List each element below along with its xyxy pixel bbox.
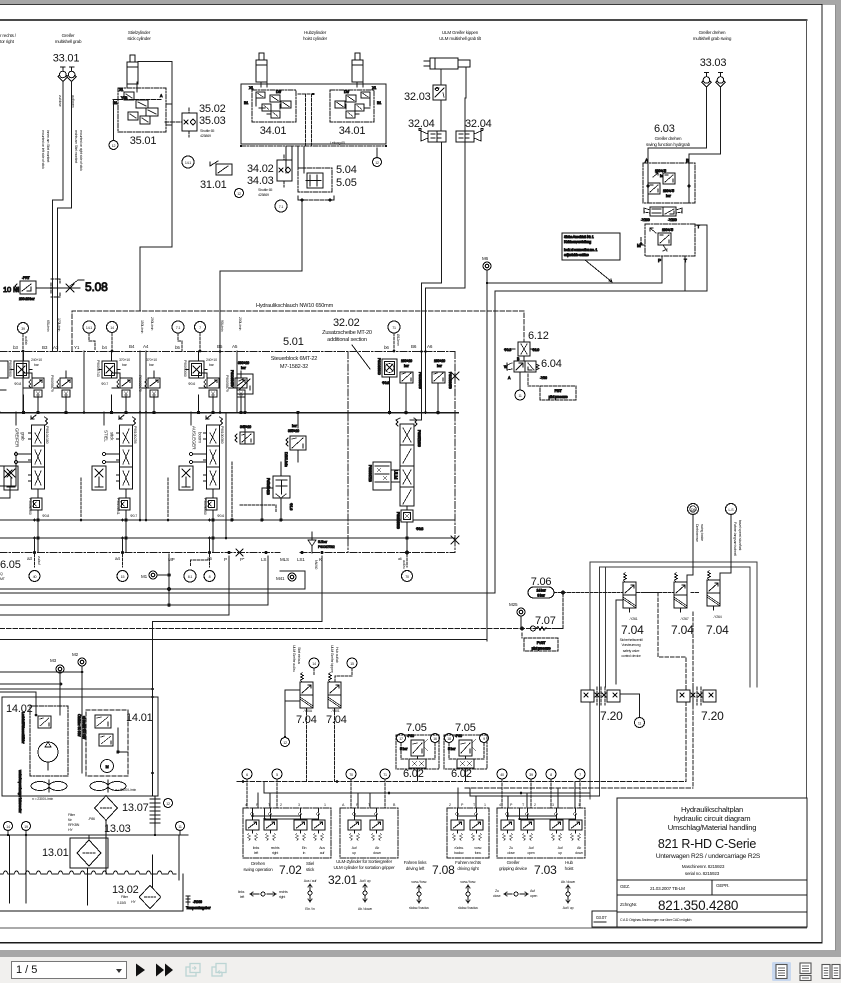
svg-text:B: B [686,158,689,163]
svg-text:Φ0.8: Φ0.8 [382,381,389,385]
wire dashed feed [523,344,525,346]
svg-text:7.05: 7.05 [455,722,476,734]
svg-text:P90083413: P90083413 [266,478,270,495]
svg-text:Unterwagen R2S / undercarriage: Unterwagen R2S / undercarriage R2S [656,853,761,860]
left edge partial compensator [0,466,16,498]
svg-text:Zu: Zu [509,846,513,850]
svg-text:-P90: -P90 [455,734,462,738]
svg-text:open: open [530,894,537,898]
svg-text:water/supercharger intercooler: water/supercharger intercooler [18,770,22,814]
joystick legends [238,879,575,911]
svg-text:left: left [240,895,244,899]
svg-text:160+10: 160+10 [401,359,412,363]
ULM solenoid block [373,462,391,490]
svg-text:bar: bar [149,363,155,367]
svg-text:boom: boom [198,432,203,443]
svg-text:bar: bar [34,363,40,367]
svg-text:11: 11 [638,722,642,726]
svg-text:B6: B6 [411,344,417,349]
node circle L-S [726,504,737,515]
shuttle 33.03 left [702,73,712,88]
valve block 5.04 / 5.05 [286,146,334,201]
svg-text:ULM cylinder for sortation gri: ULM cylinder for sortation gripper [333,865,395,870]
svg-text:-Y30A: -Y30A [303,709,313,713]
svg-text:hoist: hoist [565,866,575,871]
svg-text:ULM multishell grab tilt: ULM multishell grab tilt [439,36,482,41]
svg-text:Φ0.8: Φ0.8 [42,514,49,518]
svg-text:right: right [279,895,285,899]
svg-text:rückw.: rückw. [455,846,464,850]
svg-text:P90086900: P90086900 [396,512,400,529]
svg-text:7: 7 [199,326,201,330]
svg-text:swing operation: swing operation [243,867,273,872]
dashed drain route [636,593,693,789]
svg-text:Filter: Filter [68,813,76,817]
valve 7.04 m2 [328,673,341,713]
svg-text:auf/ab: auf/ab [24,336,28,345]
svg-text:P90093713: P90093713 [368,465,372,482]
svg-text:32.04: 32.04 [408,118,435,130]
svg-text:vorw./ forw.: vorw./ forw. [460,880,476,884]
svg-text:P: P [461,803,464,807]
svg-text:39: 39 [529,773,533,777]
wire D8 to valve [687,514,693,582]
svg-text:GREIFER: GREIFER [15,428,20,448]
cooler fins [150,773,160,828]
svg-text:P90093679: P90093679 [50,375,54,392]
svg-text:X1: X1 [119,88,123,92]
svg-text:39: 39 [21,327,25,331]
valve 7.04 #2 [674,573,687,613]
node circle 12 hoist [235,189,244,198]
svg-text:180+/-5: 180+/-5 [663,189,674,193]
svg-text:C A D Originas Änderungen nu: C A D Originas Änderungen nur über CAD m… [620,918,692,922]
svg-text:Hubzylinder: Hubzylinder [304,30,327,35]
svg-text:180+/-5: 180+/-5 [662,228,673,232]
svg-text:P90090060: P90090060 [183,360,187,377]
svg-text:in: in [303,851,306,855]
svg-text:390+10: 390+10 [238,361,249,365]
svg-text:r rechts /: r rechts / [0,33,17,38]
relief cluster ULM [377,358,452,389]
wire hoist cyl left [261,64,267,87]
svg-text:13.03: 13.03 [104,823,131,835]
svg-text:-P90: -P90 [407,734,414,738]
svg-text:für: für [68,818,73,822]
svg-text:travel speed slow/fast: travel speed slow/fast [738,520,742,550]
svg-text:Maschinennr. 8215923: Maschinennr. 8215923 [682,864,725,869]
svg-text:40: 40 [500,773,504,777]
svg-text:T: T [268,803,271,807]
svg-text:Y1: Y1 [74,345,80,350]
svg-text:auf/zu: auf/zu [402,560,406,569]
svg-text:b3: b3 [13,345,18,350]
svg-text:P90093679: P90093679 [448,372,452,389]
shuttle block 34.02 / 34.03 [277,155,292,187]
svg-text:a = 2800 L/min: a = 2800 L/min [115,788,136,792]
valve group 32.01 [328,803,398,887]
svg-text:D8: D8 [691,508,695,512]
next page button [134,962,150,978]
svg-text:RFKBN: RFKBN [68,823,80,827]
svg-text:swing brake: swing brake [700,524,704,541]
ULM spool [368,377,439,554]
svg-text:up: up [558,851,562,855]
cylinder stick [127,55,138,84]
svg-text:hoist cylinder: hoist cylinder [303,36,328,41]
node circle 11d [176,822,185,831]
svg-text:180+/-5: 180+/-5 [655,169,666,173]
spool s3 [179,415,223,552]
svg-text:40: 40 [33,575,37,579]
svg-text:9: 9 [483,737,485,741]
note box cabine [562,233,620,282]
valve group 7.03 [497,803,585,877]
svg-text:links: links [253,846,260,850]
svg-text:Ladeluft/Wasserkühler: Ladeluft/Wasserkühler [21,712,25,744]
svg-text:34.02: 34.02 [247,163,274,175]
svg-text:PiST: PiST [555,389,563,393]
node circle 12d [164,799,173,808]
svg-text:Leitung 65: Leitung 65 [330,141,345,145]
svg-text:821.350.4280: 821.350.4280 [658,898,738,913]
svg-text:8.1: 8.1 [188,575,193,579]
svg-text:zu/auf: zu/auf [37,556,41,565]
wire stick piston side [138,62,172,312]
svg-text:Fahren links: Fahren links [404,860,428,865]
pilot dashes to 5.04 [298,94,315,146]
svg-text:X1: X1 [249,86,253,90]
svg-text:7.1: 7.1 [176,326,181,330]
svg-text:1: 1 [324,803,326,807]
svg-text:rechts am Stiel montiert: rechts am Stiel montiert [74,130,78,163]
svg-text:control device: control device [621,654,641,658]
svg-text:hydraulic circuit diagram: hydraulic circuit diagram [674,814,751,823]
svg-text:Φ0.6: Φ0.6 [188,382,195,386]
svg-text:1: 1 [578,803,580,807]
svg-text:12: 12 [375,161,379,165]
svg-text:adjustable cabine: adjustable cabine [564,253,589,257]
cylinder hoist left [256,53,267,82]
svg-text:1: 1 [484,803,486,807]
svg-text:14: 14 [6,825,10,829]
node circle 11 [515,390,525,400]
drawing frame right [806,20,808,928]
svg-text:A: A [508,376,511,380]
svg-text:6: 6 [246,773,248,777]
svg-text:32.03: 32.03 [404,91,431,103]
valve group 7.02 [243,803,331,877]
wire grab open [58,82,72,352]
cylinder hoist right [352,53,363,82]
node circle 14c [309,658,319,668]
bypass 5.5bar [308,532,335,553]
svg-text:33.01: 33.01 [53,53,80,65]
svg-text:Greifer drehen: Greifer drehen [699,30,726,35]
svg-text:rechts: rechts [271,846,280,850]
svg-text:MLS: MLS [280,557,289,562]
svg-text:P90104/180: P90104/180 [45,426,49,444]
svg-text:7.20: 7.20 [600,709,623,723]
svg-text:425869: 425869 [200,134,211,138]
svg-text:ULM Greifer kippen: ULM Greifer kippen [330,645,334,673]
cooler unit box [2,697,158,796]
node circle 15b [347,658,357,668]
pilot below [401,510,413,522]
svg-text:Stielzylinder: Stielzylinder [128,30,151,35]
svg-text:oil cooler 50 KW: oil cooler 50 KW [82,716,86,740]
svg-text:close: close [507,851,515,855]
svg-text:ZchngNr.: ZchngNr. [620,902,637,907]
svg-text:a4: a4 [115,556,120,561]
wire 6.03 P [661,256,663,283]
svg-text:Zusatzscheibe MT-20: Zusatzscheibe MT-20 [322,330,372,336]
svg-text:NW40: NW40 [314,560,318,569]
svg-text:bar: bar [209,363,215,367]
svg-text:B1: B1 [244,101,248,105]
svg-text:Aus / auf: Aus / auf [304,879,317,883]
svg-text:Zu: Zu [495,889,499,893]
svg-text:70: 70 [405,575,409,579]
svg-text:7.04: 7.04 [621,623,644,637]
svg-text:T: T [522,803,525,807]
svg-text:HY: HY [68,828,73,832]
svg-text:Ein: Ein [302,846,307,850]
svg-text:Drehbremse: Drehbremse [695,524,699,542]
svg-text:A: A [342,803,345,807]
svg-text:driving left: driving left [406,866,425,871]
svg-text:Greifer drehen: Greifer drehen [655,136,682,141]
disabled icon 1 [184,961,204,979]
svg-text:160+10: 160+10 [434,359,445,363]
svg-text:365+10: 365+10 [288,429,299,433]
svg-text:345+10: 345+10 [240,425,251,429]
svg-text:Greifer: Greifer [62,33,75,38]
svg-text:A3: A3 [53,345,59,350]
junction dots [168,588,171,591]
node circle 7.1 [275,200,287,212]
svg-text:19: 19 [24,825,28,829]
compensator [273,476,290,498]
svg-text:5: 5 [276,773,278,777]
intercooler subunit [18,706,68,814]
svg-text:vorw./ forw.: vorw./ forw. [411,880,427,884]
svg-text:close: close [493,894,501,898]
svg-text:stick cylinder: stick cylinder [127,36,151,41]
svg-text:33.03: 33.03 [700,57,727,69]
wires 7.04 pair [314,668,352,682]
svg-text:L-S: L-S [729,508,735,512]
svg-text:14.02: 14.02 [6,703,33,715]
wire pilot dashed long [0,628,563,630]
accumulator 7.06 [528,587,554,598]
svg-text:left: left [254,851,258,855]
svg-text:8 bar: 8 bar [537,594,545,598]
node circle 14.1 [182,156,194,168]
svg-text:auf/open: auf/open [71,95,75,108]
manifold 7.20 right [677,687,716,705]
wire M6 rail [487,270,662,283]
svg-text:multishell grab: multishell grab [55,39,82,44]
svg-text:2: 2 [534,803,536,807]
enclosure wires [590,562,757,799]
svg-text:-PRT: -PRT [22,276,31,280]
svg-text:up: up [352,851,356,855]
relief cluster s1 [11,351,72,414]
svg-text:bar: bar [666,194,672,198]
wire 6.03 T [495,225,707,291]
svg-text:ULM Greifer kippen: ULM Greifer kippen [442,30,479,35]
svg-text:Hydraulikschlauch NW10 650mm: Hydraulikschlauch NW10 650mm [256,303,334,309]
svg-text:P90090060: P90090060 [203,498,207,515]
svg-text:P90072096: P90072096 [417,430,421,447]
svg-text:B4: B4 [129,344,135,349]
svg-text:multishell grab swing: multishell grab swing [693,36,732,41]
node circle 11b [620,694,640,717]
svg-text:-R066: -R066 [193,900,202,904]
shuttle valve 33.01 right [67,67,77,82]
svg-text:11: 11 [518,394,522,398]
svg-text:Filter: Filter [121,895,129,899]
svg-text:Vorsteuerung: Vorsteuerung [622,643,641,647]
svg-text:-Y96: -Y96 [540,376,547,380]
connector circles row [242,769,252,779]
svg-text:down: down [373,851,381,855]
svg-text:innen am Stiel montiert: innen am Stiel montiert [46,130,50,162]
svg-text:P: P [658,258,661,263]
svg-text:Drehen: Drehen [251,861,266,866]
svg-text:7.1: 7.1 [279,205,284,209]
lower section 6.03 [645,224,695,256]
svg-text:HY: HY [131,900,136,904]
svg-text:A5: A5 [232,344,238,349]
page top border [0,4,822,6]
svg-text:P90093679: P90093679 [225,375,229,392]
svg-text:stick: stick [306,867,315,872]
svg-text:M2: M2 [72,652,79,657]
svg-text:16: 16 [433,737,437,741]
svg-text:200-20 bar: 200-20 bar [19,297,35,301]
svg-text:Siehe Anschluß Nr. 1: Siehe Anschluß Nr. 1 [564,235,594,239]
svg-text:240+10: 240+10 [31,358,42,362]
svg-text:Ab: Ab [577,846,581,850]
disabled icon 2 [210,961,230,979]
svg-text:13.07: 13.07 [122,802,149,814]
svg-text:ULM-Zylinder für Sortiergreife: ULM-Zylinder für Sortiergreifer [336,859,393,864]
node circle 8 [204,571,215,582]
wire swing A [648,87,707,163]
svg-text:D/20L/min: D/20L/min [284,452,288,467]
svg-text:Dw: Dw [276,90,281,94]
svg-text:3: 3 [552,803,554,807]
svg-text:Hydraulikschaltplan: Hydraulikschaltplan [681,805,743,814]
node circle 39 [18,323,29,334]
page bottom printed border [0,942,822,944]
pressure switch 5.08 [3,276,108,301]
wire return tank M6 [0,639,487,641]
dashed pilot line across [563,592,700,594]
svg-text:Φ0.7: Φ0.7 [130,514,137,518]
svg-text:14.01: 14.01 [126,712,153,724]
svg-text:13.01: 13.01 [42,847,69,859]
svg-text:P90100/256: P90100/256 [133,426,137,444]
svg-text:Fahren langsam/schnell: Fahren langsam/schnell [733,522,737,556]
svg-text:Stiel: Stiel [306,861,314,866]
svg-text:32.01: 32.01 [328,873,358,887]
svg-text:serial no. 8215923: serial no. 8215923 [685,871,720,876]
wire grab close [53,82,63,352]
svg-text:-Y200: -Y200 [641,218,650,222]
svg-text:P90086900: P90086900 [28,498,32,515]
svg-text:zu/close: zu/close [58,95,62,107]
svg-text:12: 12 [237,192,241,196]
svg-text:Dw: Dw [344,90,349,94]
hoist valves outer box [241,84,386,144]
wire return cooler K [153,556,323,692]
svg-text:7: 7 [579,773,581,777]
svg-text:5.08: 5.08 [85,280,108,294]
svg-text:Ø12mm: Ø12mm [396,334,400,346]
svg-text:B3: B3 [42,345,48,350]
drawing frame bottom [0,927,807,929]
pilot pair [240,432,254,444]
svg-text:bar: bar [292,424,298,428]
svg-text:Φ0.8: Φ0.8 [14,382,21,386]
svg-text:P90086900: P90086900 [377,358,381,375]
valve 7.04 m1 [300,673,313,713]
continuous view icon [797,962,815,981]
svg-text:safety valve: safety valve [623,649,640,653]
svg-text:mounted on right side of stick: mounted on right side of stick [79,130,83,171]
svg-text:5.01: 5.01 [283,336,304,348]
svg-text:425869: 425869 [258,193,269,197]
svg-text:Auf: Auf [529,846,534,850]
svg-text:2: 2 [449,803,451,807]
svg-text:b4: b4 [102,345,107,350]
svg-text:P: P [510,803,513,807]
revision box 03.07 [592,911,617,927]
wire M stubs [0,666,153,715]
svg-text:12: 12 [283,741,287,745]
svg-text:6.12: 6.12 [528,330,549,342]
svg-text:Φ1.6: Φ1.6 [289,503,293,510]
valve 7.04 #1 [623,573,636,613]
svg-text:pilot pressure: pilot pressure [549,395,568,399]
svg-text:5.5bar: 5.5bar [318,540,328,544]
svg-text:Auf: Auf [530,889,535,893]
wires ULM ports [420,350,423,353]
svg-text:rechts: rechts [279,890,288,894]
wire valve1 drain [616,600,623,684]
node circle 8.1 [184,570,196,582]
svg-text:vorw.: vorw. [474,846,482,850]
svg-text:370+10: 370+10 [146,358,157,362]
svg-text:7.04: 7.04 [671,623,694,637]
svg-text:P90093743: P90093743 [96,360,100,377]
shuttle valve 33.01 left [58,67,68,82]
svg-text:Kabinenversteilung: Kabinenversteilung [564,240,591,244]
svg-text:mounted on left side of stick: mounted on left side of stick [41,130,45,169]
svg-text:200L/min: 200L/min [238,317,242,330]
wire MP drop [168,554,170,605]
valve 34.01 right [330,86,381,122]
svg-text:7.04: 7.04 [706,623,729,637]
svg-text:M3: M3 [50,658,57,663]
svg-text:Ab / down: Ab / down [561,880,575,884]
svg-text:GEZ.: GEZ. [620,884,630,889]
svg-text:ULM: ULM [394,470,399,479]
node circle 12e [281,738,290,747]
